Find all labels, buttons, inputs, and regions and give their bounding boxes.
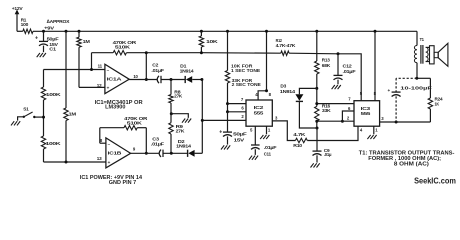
label T1 note: [359, 151, 455, 168]
node R8 R9 mid: [170, 112, 173, 115]
pin 5 label IC2: [250, 127, 253, 132]
capacitor C12: [334, 54, 356, 85]
capacitor C1: [35, 31, 59, 52]
node bus left: [145, 51, 148, 54]
wire R10 to pin4: [307, 126, 358, 140]
label IC1 type: [95, 100, 143, 110]
node IC2 48 bridge: [265, 89, 268, 92]
resistor R12 4.7K-47K: [276, 38, 296, 55]
svg-text:1 SEC TONE: 1 SEC TONE: [231, 68, 261, 74]
node D1 out: [200, 78, 203, 81]
pin 8 label IC2: [269, 92, 272, 97]
pin 5 label IC3: [360, 91, 363, 96]
pin 8 label: [100, 138, 103, 143]
svg-text:33K: 33K: [322, 108, 332, 113]
svg-text:555: 555: [361, 111, 371, 117]
watermark: [414, 177, 456, 186]
svg-text:510K: 510K: [115, 45, 131, 51]
wire feedback riser A: [145, 53, 147, 80]
ground C1: [37, 53, 46, 57]
pin 6 label IC3: [348, 106, 351, 111]
wire R24 top: [417, 77, 431, 79]
wire IC3 pin7: [317, 103, 354, 105]
capacitor C10 50uF: [219, 112, 247, 145]
ground R8R9: [171, 114, 191, 123]
pin 1 label IC3: [375, 127, 378, 132]
transformer T1 primary: [414, 37, 424, 78]
node IC1A out: [145, 78, 148, 81]
label +12V: [12, 6, 24, 12]
pin 2 label IC3: [347, 115, 350, 120]
pin 2 label IC2: [241, 114, 244, 119]
svg-text:27K: 27K: [176, 129, 186, 134]
node pin6 junction: [226, 110, 229, 113]
svg-text:R10: R10: [293, 143, 302, 149]
node 10K rail: [200, 30, 203, 33]
ground C10: [221, 145, 230, 149]
pin 12 label: [97, 83, 103, 88]
pin 4 label IC2: [255, 92, 258, 97]
svg-text:1N914: 1N914: [180, 69, 194, 74]
svg-text:GND PIN 7: GND PIN 7: [109, 180, 137, 186]
pin 13 label: [97, 156, 103, 161]
wire pin12 IC1A: [79, 86, 105, 88]
resistor R7 470K feedback A: [92, 40, 147, 70]
capacitor C9: [313, 148, 333, 163]
wire IC3 pin6: [342, 111, 354, 121]
svg-text:C12: C12: [343, 64, 353, 70]
wire IC3 pin3: [380, 121, 431, 123]
svg-text:1M: 1M: [69, 112, 77, 118]
svg-text:C11: C11: [264, 151, 272, 157]
pin 6 label IC2: [241, 106, 244, 111]
svg-text:SeekIC.com: SeekIC.com: [414, 177, 456, 186]
wire pin11 IC1A: [44, 69, 105, 71]
svg-text:.01µ: .01µ: [324, 152, 332, 157]
svg-text:+12V: +12V: [12, 6, 24, 12]
node dashed cap bottom: [395, 121, 398, 124]
pin 8 label IC3: [374, 91, 377, 96]
wire IC1B output: [131, 152, 159, 154]
resistor R2 1M upper: [77, 31, 90, 87]
svg-text:LM3900: LM3900: [105, 104, 125, 110]
svg-text:4.7K-47K: 4.7K-47K: [276, 43, 296, 49]
svg-text:555: 555: [254, 110, 264, 116]
svg-text:50µF: 50µF: [233, 132, 247, 138]
wire IC1A output: [129, 79, 157, 81]
capacitor C3: [151, 137, 188, 157]
node R9 bottom: [170, 152, 173, 155]
wire pin8 stub: [100, 142, 106, 144]
pin 3 label IC3: [381, 116, 384, 121]
diode D1: [180, 64, 202, 84]
wire IC2 pins 4-8: [258, 31, 266, 100]
power arrow +12V: [15, 10, 20, 32]
capacitor C2: [151, 62, 185, 83]
pin 1 label IC2: [268, 127, 271, 132]
diode D3: [280, 83, 317, 128]
node R16 pin2: [315, 120, 318, 123]
wire trigger column: [201, 80, 203, 154]
capacitor C11: [251, 126, 277, 157]
transformer T1 core: [421, 45, 423, 64]
label timing resistor: [231, 64, 262, 88]
svg-text:100K: 100K: [46, 141, 62, 147]
svg-text:.01µF: .01µF: [151, 142, 164, 148]
wire feedback riser B: [145, 128, 147, 154]
node C12 bus: [337, 52, 340, 55]
svg-text:15V: 15V: [234, 137, 246, 143]
node feedback-in A: [90, 68, 93, 71]
node pin7 junction: [226, 102, 229, 105]
wire IC3 pin8 riser: [374, 31, 376, 100]
svg-text:D3: D3: [280, 83, 286, 88]
svg-text:C2: C2: [152, 62, 158, 68]
svg-text:IC2: IC2: [254, 105, 264, 111]
svg-text:1N914: 1N914: [280, 89, 296, 94]
svg-text:100: 100: [21, 22, 29, 28]
pin 10 label: [133, 74, 138, 79]
wire rail to T1: [416, 31, 418, 45]
svg-text:S1: S1: [23, 106, 29, 112]
node S1 junction: [42, 116, 45, 119]
transformer T1 secondary: [426, 47, 430, 61]
wire C9 column: [316, 128, 318, 151]
switch S1: [18, 106, 44, 120]
wire modulation bus: [146, 53, 361, 101]
node R16 top: [315, 102, 318, 105]
speaker: [430, 43, 448, 66]
svg-text:27K: 27K: [174, 94, 183, 99]
wire IC2 pin2: [202, 119, 246, 121]
label IC1 power: [80, 175, 142, 186]
resistor R1: [21, 17, 33, 33]
resistor R13 68K: [315, 31, 331, 88]
capacitor optional 10-100uF: [388, 78, 432, 122]
node D3 bottom: [316, 127, 319, 130]
svg-text:.01µF: .01µF: [264, 145, 277, 151]
svg-text:∆APPROX: ∆APPROX: [47, 19, 70, 25]
svg-text:10K: 10K: [206, 39, 218, 45]
svg-text:68K: 68K: [322, 63, 331, 68]
svg-text:10-100µF: 10-100µF: [400, 85, 431, 91]
svg-text:100K: 100K: [46, 92, 61, 98]
wire bottom rail: [44, 161, 106, 163]
label APPROX +9V: [44, 19, 70, 31]
svg-text:+: +: [219, 130, 222, 136]
node 1M-upper rail: [78, 30, 81, 33]
svg-text:.01µF: .01µF: [343, 69, 356, 75]
svg-text:50µF: 50µF: [47, 37, 59, 43]
wire IC3 pin2: [317, 120, 354, 122]
resistor R16 33K: [315, 88, 332, 128]
resistor R8 27K: [169, 80, 183, 114]
diode D2: [176, 139, 202, 157]
pin 3 label IC2: [275, 116, 278, 121]
svg-text:1N914: 1N914: [176, 143, 191, 148]
resistor R4 1M lower: [64, 31, 76, 162]
op-amp IC1B: [106, 138, 131, 168]
svg-text:8 OHM (AC): 8 OHM (AC): [394, 162, 429, 168]
resistor 10K: [199, 31, 218, 52]
resistor R24 1K: [428, 78, 443, 122]
svg-text:IC1A: IC1A: [107, 77, 123, 82]
svg-text:C1: C1: [49, 46, 56, 52]
ground S1: [11, 121, 20, 125]
node IC2 48 rail: [265, 30, 268, 33]
wire R1 lead: [17, 30, 23, 32]
svg-text:1M: 1M: [83, 39, 90, 45]
timer IC2: [246, 100, 272, 126]
resistor R11 470K feedback B: [100, 116, 148, 143]
svg-text:T1: T1: [420, 37, 425, 42]
op-amp IC1A: [105, 64, 129, 94]
timer IC3: [354, 101, 380, 127]
ground C12: [332, 85, 341, 89]
resistor R10 4.7K: [293, 132, 307, 149]
node IC3 pin6 drop: [341, 120, 344, 123]
node 10K bus: [200, 51, 203, 54]
svg-text:2 SEC TONE: 2 SEC TONE: [232, 82, 262, 88]
node timing rail: [226, 30, 229, 33]
node trigger pin2: [201, 119, 204, 122]
resistor R3 100K upper: [41, 70, 61, 137]
pin 11 label: [98, 63, 103, 68]
node D3 top: [315, 87, 318, 90]
svg-text:+: +: [35, 36, 38, 42]
svg-text:1K: 1K: [435, 101, 440, 106]
wire IC2 pin6: [228, 111, 247, 113]
pin 7 label IC3: [348, 97, 351, 102]
node R8 top: [170, 78, 173, 81]
resistor R9 27K: [169, 114, 185, 154]
resistor R5 100K lower: [41, 136, 61, 162]
node IC1B out: [145, 152, 148, 155]
node 1M-lower rail: [65, 30, 68, 33]
svg-text:IC1B: IC1B: [108, 151, 123, 156]
ground IC2 pin1: [260, 126, 269, 139]
svg-text:+9V: +9V: [44, 26, 55, 32]
svg-text:.01µF: .01µF: [151, 68, 164, 74]
pin 7 label IC2: [241, 97, 244, 102]
node 1M bottom: [65, 161, 68, 164]
ground C11: [249, 156, 258, 160]
wire IC2 pin3: [272, 121, 295, 141]
node R13 rail: [315, 30, 318, 33]
pin 4 label IC3: [360, 127, 363, 132]
pin 9 label: [133, 147, 136, 152]
ground IC3 pin1: [367, 126, 376, 139]
node T1 bottom: [415, 77, 418, 80]
wire IC2 pin7: [228, 103, 247, 105]
svg-text:4.7K: 4.7K: [293, 132, 306, 138]
wire +9V rail: [33, 30, 417, 32]
node IC3 pin8 rail: [374, 30, 377, 33]
resistor timing 10K-33K: [225, 31, 229, 112]
svg-text:IC3: IC3: [361, 106, 371, 112]
ground C9: [311, 163, 320, 167]
svg-text:510K: 510K: [127, 120, 143, 126]
node C1 rail: [42, 30, 45, 33]
